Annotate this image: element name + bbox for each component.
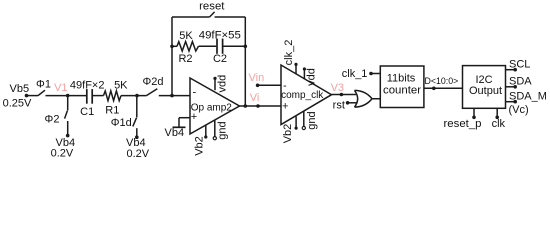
svg-text:+: + (282, 101, 288, 113)
svg-text:Op amp2: Op amp2 (191, 102, 233, 113)
svg-text:C1: C1 (80, 106, 94, 118)
svg-text:5K: 5K (179, 30, 193, 42)
svg-text:V3: V3 (331, 82, 344, 94)
svg-text:reset_p: reset_p (444, 118, 482, 130)
svg-text:reset: reset (199, 0, 225, 12)
svg-text:Φ2: Φ2 (45, 114, 60, 126)
svg-text:C2: C2 (213, 53, 227, 65)
svg-text:Vin: Vin (249, 72, 265, 84)
svg-text:Vb2: Vb2 (282, 124, 294, 144)
svg-text:SDA: SDA (509, 76, 532, 88)
svg-text:0.2V: 0.2V (126, 148, 149, 159)
svg-text:Vb4: Vb4 (165, 127, 185, 139)
svg-text:vdd: vdd (216, 75, 228, 93)
svg-text:Vb2: Vb2 (194, 136, 206, 156)
svg-text:11bits: 11bits (387, 73, 416, 85)
svg-text:Φ1d: Φ1d (111, 117, 132, 129)
svg-text:SCL: SCL (509, 58, 530, 70)
svg-text:-: - (193, 87, 197, 99)
svg-text:0.2V: 0.2V (51, 148, 74, 159)
svg-text:Φ1: Φ1 (36, 79, 51, 91)
svg-text:R1: R1 (105, 105, 119, 117)
svg-text:V1: V1 (54, 82, 67, 94)
svg-text:5K: 5K (114, 80, 128, 92)
svg-text:D<10:0>: D<10:0> (425, 76, 459, 86)
svg-text:Output: Output (469, 85, 502, 97)
svg-text:rst: rst (333, 99, 345, 111)
svg-text:49fF×2: 49fF×2 (70, 79, 105, 91)
svg-text:Φ2d: Φ2d (142, 76, 163, 88)
svg-text:clk_2: clk_2 (283, 40, 295, 66)
svg-text:49fF×55: 49fF×55 (199, 30, 241, 42)
svg-text:SDA_M: SDA_M (509, 90, 547, 102)
svg-text:Vb5: Vb5 (10, 83, 30, 95)
svg-text:gnd: gnd (306, 111, 318, 129)
svg-text:gnd: gnd (217, 121, 229, 139)
svg-text:clk: clk (492, 118, 506, 130)
svg-text:0.25V: 0.25V (3, 98, 32, 110)
svg-text:comp_clk: comp_clk (281, 90, 324, 101)
svg-text:Vi: Vi (250, 92, 260, 104)
svg-text:clk_1: clk_1 (342, 68, 368, 80)
svg-text:counter: counter (383, 85, 421, 97)
svg-text:(Vc): (Vc) (509, 104, 529, 116)
svg-text:R2: R2 (178, 53, 192, 65)
svg-text:vdd: vdd (306, 68, 318, 86)
